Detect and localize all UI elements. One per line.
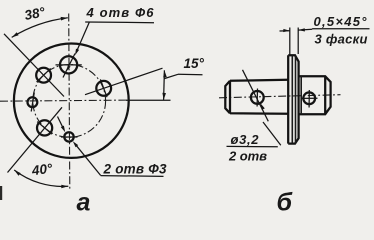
horizontal centerline (0, 100, 129, 101)
slanted line through left hub hole (243, 70, 269, 122)
radial line through top-left hole (4, 34, 64, 97)
cross chord right hole (100, 79, 107, 97)
radial line through bottom-left hole to 40deg dim (8, 107, 63, 172)
chamfer dim extension lines (289, 28, 291, 55)
axis centerline (219, 95, 341, 98)
dim arc 38deg (12, 18, 68, 38)
right hub inner vertical line (300, 76, 302, 114)
svg-text:2 отв Ф3: 2 отв Ф3 (103, 161, 167, 176)
vertical mark left hole (31, 93, 34, 112)
svg-text:б: б (277, 189, 294, 216)
flange disc (side) (288, 55, 298, 143)
left hub outline (225, 80, 287, 114)
15deg dim line vertical (163, 70, 166, 100)
arrow inside top hole (67, 65, 71, 71)
svg-text:4 отв Ф6: 4 отв Ф6 (86, 5, 155, 20)
svg-text:40°: 40° (30, 161, 54, 179)
hole right (Ф6) (96, 81, 111, 96)
cross chord top-left hole (37, 68, 51, 82)
svg-text:2 отв: 2 отв (228, 149, 267, 164)
chamfer dim arrows (280, 30, 290, 32)
left hub hole circle (251, 91, 264, 104)
hole bottom-left (Ф6, X mark) (37, 120, 52, 135)
horizontal mark bottom hole (61, 136, 78, 138)
hole top tilted mark (63, 54, 75, 78)
svg-text:ø3,2: ø3,2 (231, 132, 260, 147)
hole top (Ф6) (60, 56, 77, 73)
hole bottom (Ф3) (64, 132, 73, 141)
small arrow line onto bottom hole (58, 117, 64, 128)
bolt circle (dash-dot) (33, 65, 106, 138)
svg-text:0,5×45°: 0,5×45° (314, 14, 368, 29)
right hub hole circle (303, 92, 315, 104)
vertical centerline (69, 14, 70, 191)
hole top-left (Ф6, X mark) (36, 68, 51, 83)
flange chamfer lines (291, 56, 293, 144)
dim arc 40deg (14, 170, 68, 186)
svg-text:15°: 15° (184, 56, 205, 71)
vertical mark left hub hole (256, 89, 258, 107)
svg-text:3 фаски: 3 фаски (315, 32, 368, 47)
radial line through right hole to 15deg dim (85, 68, 163, 95)
svg-text:а: а (77, 189, 91, 216)
hole top centermark horizontal (56, 64, 82, 66)
right hub outline (299, 76, 331, 114)
marks right hub hole (308, 90, 310, 108)
outer circle of flange (14, 43, 129, 157)
scan smudge left edge (0, 186, 2, 200)
hole left (Ф3) (28, 97, 38, 107)
cross chord bottom-left hole (37, 122, 52, 135)
15deg dim: horizontal extension line (126, 99, 171, 101)
